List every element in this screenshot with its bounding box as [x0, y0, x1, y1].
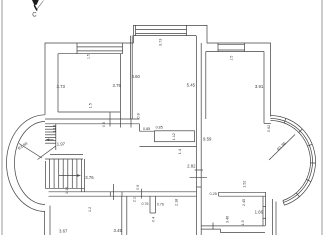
stair lower flight treads	[45, 159, 85, 188]
svg-text:1.4: 1.4	[178, 149, 182, 154]
middle room left wall	[130, 36, 132, 119]
left room inner walls	[58, 53, 123, 55]
right bay middle arc	[271, 119, 313, 203]
svg-text:1.12: 1.12	[172, 133, 176, 140]
left room bottom wall	[58, 111, 121, 113]
svg-text:1.52: 1.52	[242, 181, 246, 188]
wall end cap at bay	[264, 122, 271, 124]
svg-text:0.76: 0.76	[142, 202, 149, 206]
svg-text:0.85: 0.85	[156, 125, 163, 129]
svg-text:0.8: 0.8	[137, 113, 141, 118]
right room east wall pair	[263, 196, 266, 226]
stair arrow down (right)	[59, 174, 82, 177]
svg-text:3.73: 3.73	[159, 39, 163, 46]
bottom-right room bottom walls	[201, 223, 265, 233]
right room inner top	[206, 51, 264, 53]
main vertical wall (double)	[196, 36, 198, 235]
window top-left room	[77, 43, 123, 54]
svg-text:1.16: 1.16	[65, 187, 69, 194]
bottom-right window wall	[219, 192, 266, 196]
stair lower flight top wall	[50, 154, 83, 156]
svg-text:3.45: 3.45	[114, 228, 123, 233]
window top-right room	[218, 43, 245, 52]
svg-text:1.2: 1.2	[88, 207, 92, 212]
svg-text:1.5: 1.5	[241, 220, 245, 225]
opening box in middle-room bottom wall	[155, 131, 195, 142]
svg-text:1.5: 1.5	[87, 54, 91, 59]
right bay inner arc	[271, 121, 311, 201]
stair right wall	[81, 159, 83, 192]
right room inner right wall	[263, 52, 265, 124]
stair break line	[38, 146, 56, 160]
outer wall middle step	[134, 25, 271, 116]
window top-middle room	[136, 25, 187, 35]
dimension labels	[17, 13, 288, 234]
door ticks on main wall	[195, 169, 204, 171]
svg-text:3.73: 3.73	[57, 84, 66, 89]
svg-text:1.97: 1.97	[57, 142, 66, 147]
left bay inner arc	[14, 122, 45, 205]
svg-text:3.67: 3.67	[59, 228, 68, 233]
band ticks	[109, 112, 111, 126]
left bay outer arc	[6, 115, 45, 212]
svg-text:0.62: 0.62	[267, 125, 271, 132]
svg-text:0.85: 0.85	[143, 127, 150, 131]
svg-text:3.76: 3.76	[85, 175, 94, 180]
svg-text:0.9: 0.9	[102, 122, 106, 127]
hall lower line	[140, 146, 197, 148]
svg-text:1.66: 1.66	[255, 210, 264, 215]
svg-text:1.5: 1.5	[89, 103, 93, 108]
svg-text:3.91: 3.91	[255, 84, 264, 89]
right bay wall down to bottom	[275, 202, 277, 236]
page border left	[1, 0, 3, 235]
bottom-left room right wall	[121, 196, 123, 235]
svg-text:1.18: 1.18	[52, 125, 56, 132]
svg-text:0.4: 0.4	[151, 217, 155, 222]
svg-text:3.46: 3.46	[225, 216, 229, 223]
right room inner left wall	[205, 52, 207, 120]
svg-text:0.9: 0.9	[136, 185, 140, 190]
svg-text:3.75: 3.75	[113, 83, 122, 88]
svg-text:С: С	[32, 13, 37, 19]
radius line R1.86	[269, 135, 295, 161]
north arrow	[32, 0, 39, 11]
svg-text:2.45: 2.45	[242, 199, 246, 206]
stair arrow up (left)	[45, 139, 53, 142]
jamb tick	[113, 184, 115, 200]
page border right	[321, 0, 323, 235]
svg-text:1.5: 1.5	[229, 56, 233, 61]
bottom hall wall	[49, 191, 197, 193]
svg-text:0.25: 0.25	[210, 192, 217, 196]
right bay outer arc	[271, 116, 316, 206]
svg-text:9.59: 9.59	[203, 137, 212, 142]
svg-text:4.60: 4.60	[132, 74, 141, 79]
right bay mullion ticks	[283, 118, 316, 205]
svg-text:2.1: 2.1	[132, 197, 136, 202]
jamb tick 2	[141, 189, 143, 199]
svg-text:2.82: 2.82	[187, 164, 196, 169]
outer wall top-left section	[45, 43, 134, 115]
left bay bottom wall	[44, 211, 46, 235]
duct shaft bottom-center	[150, 196, 156, 213]
stair upper flight	[45, 124, 56, 150]
svg-text:0.76: 0.76	[157, 203, 164, 207]
middle room inner top	[134, 35, 197, 37]
hall band wall	[45, 118, 140, 120]
svg-text:5.45: 5.45	[187, 83, 196, 88]
zigzag step	[140, 124, 155, 131]
radius line R1.84	[19, 144, 42, 159]
door caps	[109, 192, 111, 196]
svg-text:2.18: 2.18	[175, 199, 179, 206]
